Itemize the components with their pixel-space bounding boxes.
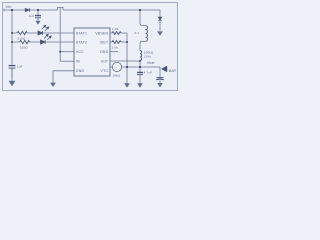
- svg-text:IN: IN: [76, 60, 80, 64]
- capacitor C4 plates: [156, 78, 164, 80]
- wire vertical to C2: [37, 10, 39, 15]
- thermistor RT1 circle: [112, 62, 121, 71]
- svg-text:ISET: ISET: [100, 40, 109, 44]
- op-amp U1 box: [74, 28, 110, 76]
- wire sense column bottom: [140, 41, 146, 50]
- wire VCC/IN feed vertical: [59, 8, 61, 62]
- svg-text:BAT: BAT: [169, 69, 177, 73]
- border frame: [3, 3, 178, 91]
- ground symbol under C2: [36, 21, 41, 25]
- capacitor C3: [137, 73, 143, 75]
- LED D2 arrows: [42, 25, 49, 31]
- LED D3: [41, 40, 46, 44]
- ground symbol under C1: [9, 68, 15, 85]
- wire sense column top: [140, 10, 146, 26]
- svg-text:510Ω: 510Ω: [18, 36, 26, 40]
- svg-text:1uF: 1uF: [29, 14, 35, 18]
- svg-text:1.0k: 1.0k: [112, 27, 119, 31]
- node Vin terminal tick: [3, 9, 5, 12]
- wire BAT cap to ground: [159, 80, 161, 83]
- LED D3 arrows: [44, 34, 51, 40]
- svg-text:1uF: 1uF: [17, 65, 23, 69]
- svg-text:DRS: DRS: [100, 50, 108, 54]
- capacitor C1: [9, 66, 16, 69]
- svg-text:510Ω: 510Ω: [20, 45, 28, 49]
- LED D2: [38, 31, 43, 35]
- wire bat cap to ground: [139, 75, 141, 84]
- resistor R4 zigzag: [112, 41, 121, 44]
- ground symbol under C4: [157, 83, 163, 87]
- svg-text:GND: GND: [76, 69, 85, 73]
- ground symbol at IC GND: [50, 83, 56, 87]
- wire vertical to C1: [11, 10, 13, 65]
- svg-text:STAT2: STAT2: [76, 40, 87, 44]
- wire VTC stub: [110, 66, 112, 68]
- resistor R5 100k vertical zigzag: [140, 51, 142, 61]
- wire IN stub: [60, 60, 74, 62]
- wire resistor-pair vertical: [126, 33, 128, 83]
- wire hop arch: [58, 7, 64, 10]
- ground symbol thermistor branch: [124, 83, 130, 87]
- ground symbol under clamp: [157, 31, 163, 35]
- svg-text:VBSEN: VBSEN: [95, 31, 108, 35]
- resistor R2 zigzag: [20, 40, 30, 43]
- resistor Rs vertical zigzag: [146, 26, 148, 42]
- wire C1 lower lead: [11, 68, 13, 78]
- svg-text:4.7uF: 4.7uF: [144, 71, 152, 75]
- wire top rail left: [4, 9, 58, 11]
- wire BAT branch down: [159, 67, 161, 77]
- wire C2 lower lead: [37, 18, 39, 21]
- capacitor C2: [35, 16, 41, 18]
- svg-text:0.1: 0.1: [135, 31, 140, 35]
- BAT terminal arrow: [162, 66, 167, 71]
- wire DRS stub: [110, 51, 118, 53]
- svg-text:STAT1: STAT1: [76, 31, 87, 35]
- wire Vbat rail: [122, 66, 160, 68]
- wire VBSEN stub: [110, 32, 127, 34]
- resistor R1 zigzag: [17, 31, 27, 34]
- wire 100k to bat node: [139, 60, 141, 72]
- svg-text:10kΩ: 10kΩ: [112, 74, 120, 78]
- wire STAT1 line: [12, 32, 74, 34]
- wire STAT2 line: [12, 41, 74, 43]
- wire GND stub and drop: [53, 71, 74, 83]
- wire input clamp top: [159, 10, 161, 17]
- svg-text:VTC: VTC: [101, 69, 109, 73]
- svg-text:VCC: VCC: [76, 50, 84, 54]
- junction node dots: [11, 9, 141, 68]
- wire VCC stub: [60, 51, 74, 53]
- wire top rail right: [63, 9, 160, 11]
- resistor R3 zigzag: [112, 32, 121, 35]
- svg-text:(1%): (1%): [144, 54, 151, 58]
- svg-text:Vbat: Vbat: [147, 61, 155, 65]
- wire DRV wire to node: [110, 60, 140, 62]
- diode D4 input clamp: [158, 17, 162, 20]
- svg-text:BJT: BJT: [101, 60, 108, 64]
- background: [0, 0, 180, 93]
- wire ISET stub: [110, 41, 127, 43]
- ground symbol under C3: [137, 83, 143, 87]
- svg-text:Vin: Vin: [6, 4, 12, 9]
- svg-text:1.0k: 1.0k: [112, 46, 119, 50]
- wire input clamp bottom: [159, 20, 161, 31]
- diode D1 on rail: [25, 8, 29, 12]
